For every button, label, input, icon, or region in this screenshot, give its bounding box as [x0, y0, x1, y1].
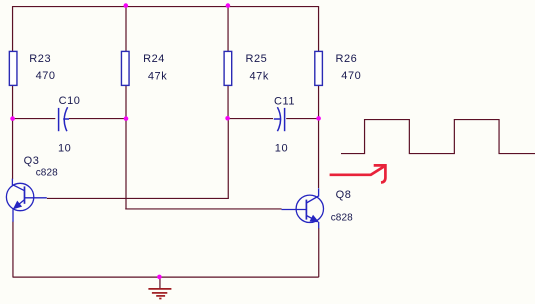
node A left col / C10	[10, 116, 15, 121]
svg-text:470: 470	[341, 70, 361, 82]
wire cross-couple R25 to Q3 base	[47, 197, 229, 199]
wire C11 left segment	[228, 118, 273, 120]
wire node D to Q8 collector	[318, 119, 320, 188]
svg-text:R23: R23	[29, 53, 51, 65]
transistor Q3	[6, 179, 46, 222]
svg-text:C10: C10	[59, 95, 81, 107]
wire C10 left segment	[13, 118, 56, 120]
wire Q3 emitter to bottom rail	[12, 222, 14, 278]
resistor R26	[315, 51, 323, 85]
wire R23 bottom to node A	[12, 86, 14, 119]
wire R25 column top	[227, 7, 229, 52]
ground	[148, 289, 171, 299]
wire top rail VCC	[13, 6, 319, 8]
node top rail / R24	[124, 3, 129, 8]
wire C11 right segment to node D	[286, 118, 318, 120]
wire ground stem	[159, 277, 161, 288]
wire node C down to base line	[227, 119, 229, 199]
node ground / bottom rail	[157, 275, 162, 280]
wire R26 column top	[318, 6, 320, 52]
resistor R23	[9, 51, 17, 85]
wire C10 right segment to node B	[69, 118, 126, 120]
svg-text:c828: c828	[331, 213, 353, 224]
capacitor C11	[274, 107, 285, 131]
svg-text:Q3: Q3	[24, 155, 40, 167]
node top rail / R25	[226, 3, 231, 8]
wire node A to Q3 collector	[12, 119, 14, 180]
svg-text:c828: c828	[36, 168, 58, 179]
wire R24 column top	[125, 7, 127, 52]
svg-text:470: 470	[36, 70, 56, 82]
wire R25 bottom to node C	[227, 86, 229, 119]
resistor R25	[224, 51, 232, 85]
svg-text:R24: R24	[143, 53, 165, 65]
output square waveform	[341, 120, 535, 154]
svg-text:47k: 47k	[250, 70, 269, 82]
capacitor C10	[59, 107, 69, 131]
svg-text:Q8: Q8	[336, 189, 352, 201]
resistor R24	[121, 51, 129, 85]
node B R24 col / C10	[124, 116, 129, 121]
svg-text:10: 10	[58, 143, 71, 155]
wire R26 bottom to node D	[318, 86, 320, 119]
svg-text:C11: C11	[274, 95, 295, 107]
svg-text:10: 10	[275, 143, 288, 155]
wire bottom rail	[13, 276, 319, 278]
svg-text:47k: 47k	[148, 71, 167, 83]
wire R24 bottom through node B down to y209	[125, 86, 127, 209]
annotation red arrow	[330, 165, 386, 182]
transistor Q8	[282, 188, 324, 228]
wire Q8 emitter to bottom rail	[318, 228, 320, 277]
wire cross-couple R24 to Q8 base	[125, 208, 281, 210]
node D R26 col / C11	[316, 116, 321, 121]
svg-text:R26: R26	[336, 53, 358, 65]
svg-text:R25: R25	[246, 53, 268, 65]
wire left column upper (rail to R23)	[12, 6, 14, 52]
node C R25 col / C11	[225, 116, 230, 121]
